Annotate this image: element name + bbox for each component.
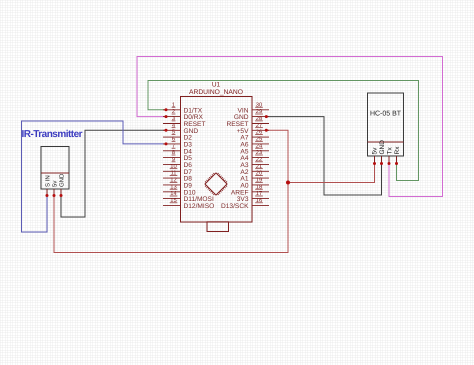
junction dot U1 pin27 (265, 129, 268, 132)
HC-05 pin strip divider (368, 141, 404, 143)
U1 left pin numbers 1-15 (170, 102, 178, 204)
HC-05 pin label GND (379, 140, 386, 155)
junction dot U1 pin4 (165, 129, 168, 132)
wire net RX: U1 D0/RX to HC-05 Tx (magenta) (137, 57, 443, 197)
junction dot U1 pin2 (165, 115, 168, 118)
junction dot HC-05 5v (373, 162, 376, 165)
U1 right pin numbers 30-16 (255, 101, 263, 204)
junction dot HC-05 Rx (395, 162, 398, 165)
U1 MCU chip glyph (rotated QFP square with pin ticks) (205, 173, 227, 195)
svg-text:D12/MISO: D12/MISO (184, 203, 215, 210)
IR pin label GND (59, 173, 66, 187)
svg-text:5v: 5v (372, 147, 379, 155)
U1 right pin names (221, 107, 249, 210)
junction dot IR GND (60, 194, 63, 197)
svg-text:D13/SCK: D13/SCK (221, 203, 249, 210)
junction dot U1 pin1 (165, 108, 168, 111)
svg-text:U1: U1 (212, 82, 221, 89)
U1 reference designator label (212, 82, 221, 89)
U1 left pin stubs 1-15 (163, 110, 181, 206)
junction dot U1 pin6 (165, 142, 168, 145)
IR pin label S IN (45, 175, 52, 187)
junction dot U1 pin29 (265, 115, 268, 118)
wire net +5V: U1 pin27 +5V to HC-05 5v (red) (266, 130, 374, 182)
module HC-05 BT symbol outline (368, 93, 404, 156)
HC-05 pin label Rx (394, 146, 401, 155)
svg-text:Rx: Rx (394, 146, 401, 155)
U1 value label ARDUINO_NANO (189, 89, 243, 96)
HC-05 pin label 5v (372, 147, 379, 155)
wire net +5V branch: junction to IR-Transmitter 5v (red) (54, 183, 288, 253)
HC-05 pin label Tx (387, 147, 394, 155)
svg-text:5v: 5v (52, 181, 59, 187)
junction dot +5V net branch (286, 181, 290, 185)
svg-text:S IN: S IN (45, 175, 52, 187)
junction dot IR 5v (53, 194, 56, 197)
U1 right pin stubs 16-30 (252, 110, 269, 206)
wire net D3: U1 D3 to IR-Transmitter S pin (blue) (22, 121, 167, 232)
svg-text:GND: GND (59, 173, 66, 187)
junction dot HC-05 GND (380, 162, 383, 165)
HC-05 pin stubs (375, 156, 397, 164)
wire net GND2: U1 pin29 GND to HC-05 GND (black) (266, 117, 381, 195)
IR-Transmitter pin strip divider (41, 172, 69, 174)
op: IC U1 ARDUINO_NANO symbol outline (181, 97, 253, 223)
wire net TX: U1 D1/TX to HC-05 Rx (green) (148, 81, 419, 181)
svg-text:GND: GND (379, 140, 386, 155)
module IR-Transmitter symbol outline (41, 147, 69, 190)
junction dot IR S (46, 194, 49, 197)
svg-text:ARDUINO_NANO: ARDUINO_NANO (189, 89, 243, 96)
HC-05 BT value label (370, 111, 402, 118)
IR pin label 5v (52, 181, 59, 187)
svg-text:HC-05 BT: HC-05 BT (370, 111, 402, 118)
U1 USB connector rectangle (207, 222, 229, 232)
net label IR-Transmitter (22, 129, 83, 140)
svg-text:Tx: Tx (387, 147, 394, 155)
junction dot HC-05 Tx (388, 162, 391, 165)
U1 left pin names (184, 107, 215, 210)
IR-Transmitter pin stubs (47, 189, 61, 196)
wire net GND1: U1 pin4 GND to IR-Transmitter GND (black) (61, 130, 166, 217)
svg-text:IR-Transmitter: IR-Transmitter (22, 129, 83, 140)
